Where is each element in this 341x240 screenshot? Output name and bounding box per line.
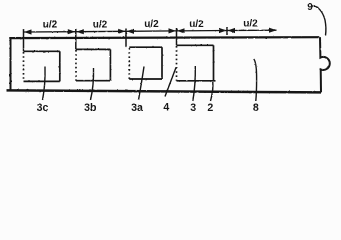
svg-text:8: 8 (253, 102, 259, 114)
svg-text:9: 9 (307, 2, 313, 13)
svg-text:3a: 3a (131, 102, 143, 114)
svg-text:u/2: u/2 (243, 19, 258, 30)
svg-text:4: 4 (163, 102, 169, 114)
svg-text:u/2: u/2 (43, 20, 58, 31)
svg-text:u/2: u/2 (189, 19, 204, 30)
svg-text:u/2: u/2 (93, 19, 108, 30)
svg-text:3b: 3b (84, 102, 97, 114)
svg-text:3c: 3c (37, 102, 49, 114)
svg-text:3: 3 (190, 102, 196, 114)
svg-text:2: 2 (207, 102, 213, 114)
svg-text:u/2: u/2 (144, 19, 159, 30)
